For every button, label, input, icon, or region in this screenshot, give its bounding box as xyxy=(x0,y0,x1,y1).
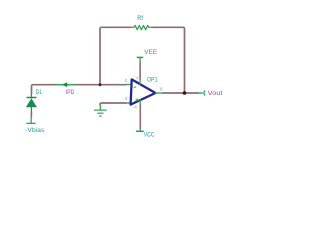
photodiode D1 cathode bar xyxy=(27,97,37,99)
svg-text:-Vbias: -Vbias xyxy=(25,128,44,134)
op-amp plus sign xyxy=(135,98,138,101)
op-amp pin 3 stub xyxy=(126,102,131,104)
current probe IPD green segment xyxy=(56,84,77,86)
VCC terminal bar xyxy=(136,130,144,132)
wire non-inverting input xyxy=(100,103,127,105)
wire VEE to op-amp pin 7 xyxy=(139,62,141,81)
svg-text:3: 3 xyxy=(125,96,128,101)
svg-text:OP1: OP1 xyxy=(147,76,158,83)
svg-text:6: 6 xyxy=(160,87,163,92)
wire inverting input (probe to op-amp) xyxy=(77,84,127,86)
ground bar 1 xyxy=(94,109,107,111)
wire inverting input (diode corner to probe) xyxy=(32,85,57,94)
ground stem xyxy=(99,104,101,110)
junction dot at output node xyxy=(183,91,187,95)
current probe IPD arrowhead xyxy=(62,82,67,87)
photodiode D1 body xyxy=(26,98,37,107)
wire feedback top right + right vertical xyxy=(152,27,184,93)
op-amp pin 7 stub xyxy=(139,80,141,84)
svg-text:2: 2 xyxy=(125,78,128,83)
wire feedback left+top xyxy=(100,27,131,85)
wire op-amp pin 4 to VCC xyxy=(139,104,141,129)
svg-text:VCC: VCC xyxy=(144,132,155,139)
VEE terminal bar xyxy=(137,56,144,58)
svg-text:4: 4 xyxy=(134,104,137,109)
-Vbias terminal bar xyxy=(26,122,35,124)
resistor R_f xyxy=(131,25,152,29)
junction dot at feedback/input node xyxy=(99,83,102,86)
svg-text:Rf: Rf xyxy=(137,15,143,22)
svg-text:IPD: IPD xyxy=(66,90,75,96)
ground bar 2 xyxy=(97,112,103,114)
op-amp pin 4 stub xyxy=(139,99,141,104)
Vout port arc xyxy=(204,91,205,96)
svg-text:D1: D1 xyxy=(36,90,43,96)
svg-text:Vout: Vout xyxy=(208,90,223,97)
svg-text:VEE: VEE xyxy=(144,49,157,56)
VEE terminal stem xyxy=(139,57,141,62)
-Vbias terminal stem xyxy=(30,117,32,123)
ground bar 3 xyxy=(99,115,101,117)
wire diode to -Vbias terminal xyxy=(30,112,32,118)
photodiode D1 anode lead xyxy=(30,107,32,112)
op-amp U1 triangle xyxy=(131,79,156,104)
photodiode D1 cathode lead xyxy=(30,93,32,98)
VCC terminal stem xyxy=(139,129,141,132)
op-amp pin 2 stub xyxy=(126,84,131,86)
wire output xyxy=(163,92,199,94)
Vout port lead xyxy=(198,92,203,94)
op-amp output pin 6 stub xyxy=(155,92,163,94)
svg-text:7: 7 xyxy=(136,76,139,81)
op-amp minus sign xyxy=(134,86,137,88)
